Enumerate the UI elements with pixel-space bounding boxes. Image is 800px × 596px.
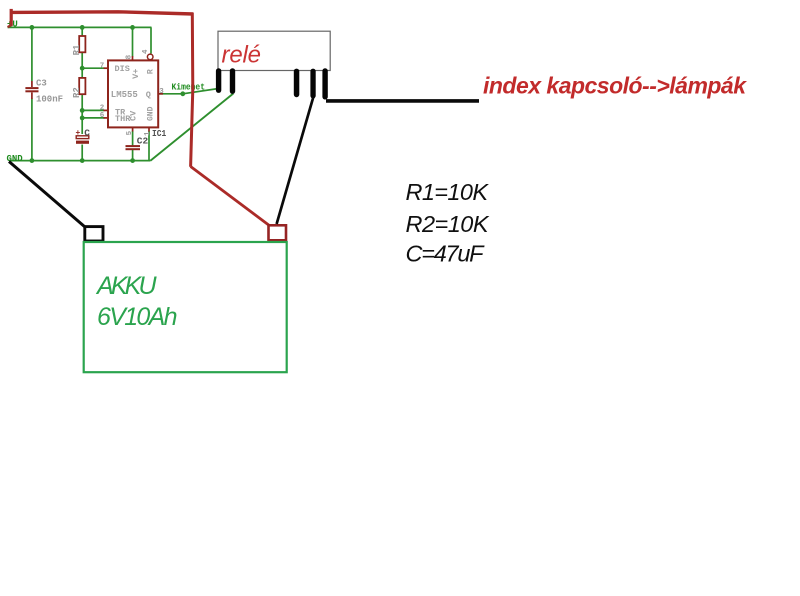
junction pin2 [80,108,85,113]
wire C3 branch upper [31,27,33,81]
pin 8 stub [132,56,134,60]
wire pin4 [150,27,152,53]
black annotation wire GND to battery terminal [9,162,85,228]
svg-text:R: R [145,68,155,74]
svg-text:GND: GND [147,106,156,121]
relay pin 2 [230,68,235,94]
wire gnd rail [9,160,151,162]
svg-text:5: 5 [126,130,134,135]
svg-text:4: 4 [142,49,150,54]
wire R1-R2 middle [81,52,83,78]
capacitor C2 [126,145,141,150]
svg-text:V+: V+ [131,69,141,79]
black annotation wire relay pin4 to battery terminal [277,98,314,225]
wire pin1 to gnd rail [148,131,150,161]
svg-text:100nF: 100nF [36,95,63,105]
battery AKKU box [84,242,287,372]
junction top rail at R1 [80,25,85,30]
wire pin8 [132,27,134,56]
pin 6 stub [104,117,109,119]
pin 1 stub [148,127,150,131]
svg-text:C=47uF: C=47uF [406,241,486,267]
junction pin6 [80,116,85,121]
svg-text:C3: C3 [36,78,47,88]
relay pin 4 [310,69,315,99]
svg-text:Kimenet: Kimenet [172,82,206,92]
wire C3 branch lower [31,99,33,161]
capacitor C3 [25,81,38,99]
wire +V top rail [8,26,152,28]
red annotation vertical wire [191,13,193,167]
svg-text:3: 3 [159,88,164,96]
svg-text:C2: C2 [137,136,149,147]
svg-text:IC1: IC1 [152,128,166,139]
svg-text:R2: R2 [72,87,82,98]
pin 5 stub [132,127,134,131]
junction gnd rail at C2 [130,158,135,163]
wire R2 bottom to cap C [81,94,83,134]
wire diagonal Kimenet to relay pin1 [183,89,218,94]
battery red terminal square [269,225,287,240]
wire diagonal gnd rail to relay pin2 [151,94,234,161]
battery black terminal square [85,227,103,241]
svg-text:R1: R1 [72,44,82,55]
svg-text:LM555: LM555 [111,90,138,100]
junction R1-R2 pin7 [80,66,85,71]
wire pin2 [82,109,104,111]
wire R1 top [81,27,83,36]
black annotation wire index output [326,99,479,103]
pin 3 stub [158,93,163,95]
svg-text:DIS: DIS [115,64,130,74]
relay box [218,31,330,70]
wire pin5 to C2 [132,131,134,146]
capacitor C electrolytic [76,129,90,144]
op-amp U1 IC LM555 box [108,60,158,127]
junction Kimenet node [180,91,185,96]
wire C2 to gnd rail [132,150,134,161]
svg-text:AKKU: AKKU [95,272,157,300]
pin 4 inversion circle [147,54,153,60]
wire cap C to gnd rail [81,145,83,161]
svg-text:R2=10K: R2=10K [406,211,490,237]
resistor R2 [79,78,85,94]
svg-text:6V10Ah: 6V10Ah [97,303,178,331]
svg-text:CV: CV [128,110,138,121]
junction gnd rail at C3 [30,158,35,163]
wire Q output Kimenet [158,93,183,95]
junction top rail at pin8 [130,25,135,30]
svg-text:relé: relé [222,42,262,69]
pin 2 stub [104,109,109,111]
wire pin7 [82,67,104,69]
red annotation +U hook [10,9,13,26]
svg-text:8: 8 [126,54,134,59]
relay pin 1 [216,68,221,93]
svg-text:C: C [84,127,90,138]
svg-text:7: 7 [100,62,105,70]
relay pin 5 [322,68,327,99]
svg-text:6: 6 [100,112,105,120]
junction gnd rail at C [80,158,85,163]
svg-text:R1=10K: R1=10K [406,179,490,205]
red annotation diagonal wire to battery [191,167,269,226]
pin 7 stub [104,67,109,69]
junction top rail at C3 [30,25,35,30]
red annotation top horizontal wire [11,12,194,14]
svg-text:index kapcsoló-->lámpák: index kapcsoló-->lámpák [483,73,747,99]
resistor R1 [79,36,85,52]
svg-text:Q: Q [146,90,151,100]
relay pin 3 [294,69,300,98]
wire pin6 [82,117,104,119]
